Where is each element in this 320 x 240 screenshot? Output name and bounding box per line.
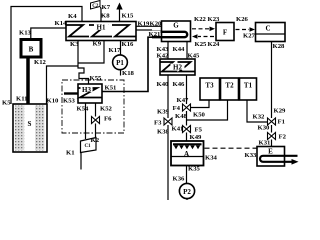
svg-text:G: G <box>173 22 179 30</box>
svg-text:K15: K15 <box>122 13 135 20</box>
svg-text:F6: F6 <box>104 116 112 123</box>
svg-text:F1: F1 <box>278 119 285 126</box>
absorber A <box>171 141 204 166</box>
svg-text:K8: K8 <box>101 13 110 20</box>
svg-text:K28: K28 <box>273 43 286 50</box>
svg-text:F2: F2 <box>279 134 287 141</box>
wire K51 K21 H3 to G <box>102 37 152 91</box>
wire K46 K47 <box>186 75 188 104</box>
valve F6 <box>92 117 100 124</box>
svg-text:K10: K10 <box>47 98 60 105</box>
svg-text:C1: C1 <box>84 144 91 149</box>
svg-text:E: E <box>268 148 273 156</box>
svg-text:K7: K7 <box>102 4 111 11</box>
wire K2 <box>95 124 97 138</box>
svg-text:K22: K22 <box>194 16 207 23</box>
svg-text:K19: K19 <box>138 21 151 28</box>
dashed wire K34 K33 A to E <box>205 147 258 149</box>
pump P2 <box>179 183 194 200</box>
svg-text:F3: F3 <box>154 120 162 127</box>
wire K5 top-left loop <box>11 7 82 105</box>
svg-text:K17: K17 <box>109 47 122 54</box>
svg-text:K35: K35 <box>188 166 201 173</box>
svg-text:T3: T3 <box>205 82 214 90</box>
wire K55 jog to H3 <box>78 66 89 84</box>
svg-text:P1: P1 <box>116 59 124 67</box>
svg-text:K18: K18 <box>122 70 135 77</box>
wire K44 K45 G to H2 right <box>186 42 188 60</box>
valve F4 <box>183 104 191 111</box>
reservoirs T3 T2 T1 <box>200 78 220 100</box>
svg-text:K3: K3 <box>70 41 79 48</box>
wire F1 to F2 <box>271 125 273 133</box>
dashed arrow K26 K27 F to C <box>236 16 256 40</box>
vent arrow K15 <box>116 3 134 22</box>
wire K7 K8 <box>100 7 103 22</box>
svg-text:K16: K16 <box>122 41 135 48</box>
unit enclosure dash-dot <box>62 80 124 133</box>
wire K53 <box>64 92 78 94</box>
svg-text:K30: K30 <box>258 125 271 132</box>
svg-text:T1: T1 <box>244 82 253 90</box>
svg-text:K9: K9 <box>93 41 102 48</box>
svg-text:H3: H3 <box>82 86 91 94</box>
svg-text:K31: K31 <box>259 140 271 147</box>
svg-text:K46: K46 <box>173 81 186 88</box>
svg-text:K36: K36 <box>173 176 186 183</box>
svg-text:K13: K13 <box>19 30 32 37</box>
svg-text:K40: K40 <box>157 81 170 88</box>
svg-text:F: F <box>223 29 227 37</box>
svg-text:K14: K14 <box>55 20 68 27</box>
valve F2 <box>268 133 276 140</box>
wire K31 <box>271 140 273 147</box>
svg-text:K20: K20 <box>150 21 163 28</box>
compressor C1 <box>81 138 97 153</box>
svg-text:K29: K29 <box>274 108 287 115</box>
svg-text:K24: K24 <box>208 41 221 48</box>
svg-text:K33: K33 <box>245 152 258 159</box>
svg-text:C: C <box>265 25 270 33</box>
wire K43 K42 G to H2 left <box>167 42 169 60</box>
svg-text:K54: K54 <box>77 106 90 113</box>
boiler B <box>21 40 41 58</box>
svg-text:F4: F4 <box>173 105 181 112</box>
dashed arrow K22 K23 G to F <box>192 16 220 31</box>
svg-text:B: B <box>29 46 34 54</box>
wire K3 from H1 <box>77 41 79 67</box>
svg-text:K12: K12 <box>34 59 47 66</box>
dashed arrow K25 K24 F to G <box>192 34 220 48</box>
svg-text:S: S <box>28 120 32 128</box>
svg-text:P2: P2 <box>183 188 191 196</box>
svg-text:K48: K48 <box>175 113 188 120</box>
condenser C <box>256 23 286 42</box>
svg-text:K39: K39 <box>157 109 170 116</box>
svg-text:K51: K51 <box>105 85 117 92</box>
generator G <box>148 21 191 42</box>
svg-text:K11: K11 <box>16 96 28 103</box>
wire K20 <box>136 29 152 31</box>
evaporator E <box>257 147 299 167</box>
wire K35 K36 <box>186 166 188 184</box>
wire K9 from H1 <box>78 41 104 64</box>
wire K50 T3 to F4 <box>191 100 210 108</box>
svg-text:K41: K41 <box>172 126 184 133</box>
wire K32 T1 branch <box>247 100 268 122</box>
svg-text:K32: K32 <box>253 114 266 121</box>
svg-text:F5: F5 <box>195 127 203 134</box>
svg-text:K21: K21 <box>149 31 161 38</box>
svg-text:K47: K47 <box>177 97 190 104</box>
wire K40 K39 K38 long left line <box>167 75 169 118</box>
svg-text:K50: K50 <box>193 112 206 119</box>
svg-text:K52: K52 <box>100 106 113 113</box>
pump P1 <box>109 41 135 78</box>
svg-text:K25: K25 <box>195 41 208 48</box>
wire K52 <box>95 103 97 117</box>
solution tank S <box>13 104 47 152</box>
wire K10 to S <box>47 66 79 104</box>
svg-text:K49: K49 <box>190 134 203 141</box>
svg-text:K26: K26 <box>236 16 249 23</box>
valve F3 <box>164 118 172 125</box>
heat exchanger H2 <box>160 59 195 75</box>
heat exchanger H3 <box>78 84 102 103</box>
wire K13 K14 <box>31 28 66 39</box>
svg-text:K1: K1 <box>66 150 75 157</box>
wire K54 H3 to C1 <box>85 103 87 139</box>
heat exchanger H1 <box>66 22 136 41</box>
compressor C2 <box>91 1 101 10</box>
svg-text:K55: K55 <box>90 75 103 82</box>
svg-text:H2: H2 <box>173 64 182 72</box>
wire K28 K29 <box>271 42 273 119</box>
svg-text:K38: K38 <box>157 129 170 136</box>
svg-text:K4: K4 <box>68 13 77 20</box>
wire K12 B to S <box>26 58 30 105</box>
separator F <box>216 23 234 41</box>
svg-text:K53: K53 <box>63 98 76 105</box>
wire K49 <box>186 133 188 142</box>
wire K1 <box>80 153 82 170</box>
svg-text:H1: H1 <box>97 24 106 32</box>
svg-text:K5: K5 <box>2 100 11 107</box>
svg-text:K27: K27 <box>243 33 256 40</box>
wire K48 K41 <box>186 111 188 126</box>
valve F5 <box>183 126 191 133</box>
wire T2 branch <box>187 100 228 120</box>
svg-text:K34: K34 <box>205 155 218 162</box>
svg-text:C2: C2 <box>92 4 99 9</box>
valve F1 <box>268 118 276 125</box>
svg-text:T2: T2 <box>225 82 234 90</box>
svg-text:K44: K44 <box>173 46 186 53</box>
wire K19 <box>136 25 162 27</box>
